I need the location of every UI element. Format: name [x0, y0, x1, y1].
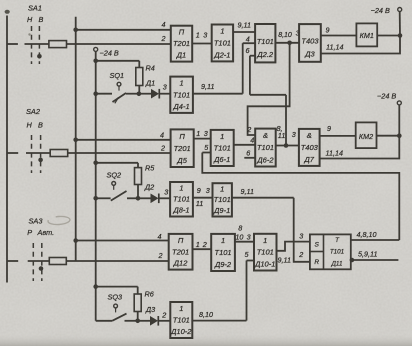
logic element D10-2 (Т101) [170, 302, 192, 338]
svg-text:Т101: Т101 [257, 248, 274, 257]
svg-text:−24 В: −24 В [371, 6, 390, 15]
svg-text:9: 9 [327, 124, 331, 133]
label diode Д1 [145, 79, 155, 88]
svg-text:Т101: Т101 [214, 143, 231, 152]
label 11,14 D3 [326, 43, 343, 52]
wire SQ2 right [127, 197, 138, 199]
label -24V left [100, 49, 119, 58]
wire D6-2 output to D7 [276, 145, 299, 147]
wire to R5 top [96, 163, 138, 168]
svg-text:&: & [263, 131, 268, 140]
logic element D6-2 (Т101) [255, 129, 276, 167]
wire D6-1 to D6-2 pin4 [234, 144, 256, 146]
svg-text:1: 1 [180, 79, 184, 88]
svg-text:R5: R5 [145, 164, 155, 173]
wire D4-1 output 9,11 [193, 93, 243, 95]
svg-text:Р: Р [27, 228, 32, 237]
svg-text:В: В [39, 15, 44, 24]
svg-text:R4: R4 [146, 64, 155, 73]
wire diode to D4-1 pin3 [159, 93, 170, 95]
label diode Д3 [145, 305, 155, 314]
pin label 3 D8-1 [164, 188, 168, 197]
wire SA1 to resistor [25, 43, 49, 45]
svg-text:Т201: Т201 [172, 247, 189, 256]
label diode Д2 [144, 182, 154, 191]
label 9,11 [238, 21, 251, 30]
svg-text:11: 11 [278, 131, 286, 140]
svg-text:Д12: Д12 [173, 259, 188, 268]
wire -24V rail vertical [95, 51, 97, 320]
logic element D6-1 (Т101) [211, 130, 234, 166]
logic element D12 (Т201) [169, 234, 193, 270]
label SA1 positions Н В [27, 15, 44, 24]
svg-text:1: 1 [196, 31, 200, 40]
wire to diode VD1 [139, 93, 151, 95]
svg-text:11: 11 [196, 199, 204, 208]
pin 6 stub D6-2 unused [244, 157, 255, 159]
resistor R4 [136, 68, 143, 86]
svg-text:Д1: Д1 [145, 79, 155, 88]
pin 6 stub D2-2 [250, 56, 255, 95]
pin label 2 D6-2 [246, 125, 251, 134]
pin label 6 D2-2 [246, 46, 250, 55]
wire R5 bottom [137, 185, 139, 199]
pin label 4 D6-2 [250, 136, 254, 145]
wire rail to D5 pin4 [76, 139, 171, 141]
wire diode to D8-1 pin3 [159, 197, 170, 199]
wire to diode VD2 [138, 197, 151, 199]
svg-text:Т201: Т201 [174, 144, 191, 153]
svg-text:2: 2 [202, 240, 207, 249]
pin label 4 D12 [158, 232, 162, 241]
svg-text:4,8,10: 4,8,10 [357, 230, 377, 239]
svg-text:9,11: 9,11 [241, 187, 254, 196]
label 5,9,11 [358, 250, 377, 259]
wire D7 output 9 to KM2 [320, 135, 356, 137]
label SQ1 [110, 71, 125, 80]
feedback wire D2-2 output to D6-2 pin2 [248, 43, 290, 135]
wire SQ3 right [125, 320, 138, 322]
logic element D3 (Т403) [299, 24, 321, 62]
svg-text:3: 3 [292, 130, 296, 139]
svg-text:1: 1 [221, 236, 225, 245]
labels 8 10 3 [235, 224, 250, 242]
resistor R6 [134, 294, 141, 312]
wire D2-1 to D2-2 (9,11) [233, 31, 255, 33]
svg-text:8,10: 8,10 [199, 310, 213, 319]
svg-text:9,11: 9,11 [278, 256, 291, 265]
diode VD3 (Д3) [150, 316, 158, 326]
svg-text:6: 6 [246, 148, 250, 157]
switch SQ3 blade [112, 314, 126, 321]
node rail-D5 [73, 138, 78, 143]
label SA1 [28, 4, 42, 13]
pencil loop mark [48, 216, 71, 226]
label 9,11 D4-1 output [201, 82, 214, 91]
svg-text:&: & [307, 131, 312, 140]
svg-text:2: 2 [161, 311, 166, 320]
wire diode to D10-2 pin2 [158, 320, 170, 322]
switch SA1 dashed contacts [32, 26, 42, 64]
svg-text:Д6-1: Д6-1 [213, 155, 230, 164]
svg-text:8,10: 8,10 [278, 32, 292, 39]
svg-text:Т403: Т403 [301, 143, 319, 152]
svg-text:SA3: SA3 [29, 217, 44, 226]
logic element D1 (Т201) [171, 26, 192, 62]
svg-text:2: 2 [298, 250, 303, 259]
wire rail to D12 pin4 [76, 240, 169, 242]
wire resistor to D5 pin2 [68, 152, 171, 154]
wire resistor to D1 pin2 [67, 43, 171, 45]
svg-text:Т101: Т101 [257, 143, 274, 152]
wire D12 to D9-2 [193, 248, 212, 250]
svg-text:1: 1 [263, 236, 267, 245]
label SA3 [29, 217, 44, 226]
logic element D4-1 (Т101) [170, 77, 193, 113]
switch SQ1 blade [113, 93, 127, 103]
svg-text:8: 8 [238, 224, 242, 233]
svg-text:Д3: Д3 [145, 305, 155, 314]
svg-text:3: 3 [164, 188, 168, 197]
svg-text:1: 1 [196, 240, 200, 249]
svg-text:1: 1 [220, 27, 224, 36]
pin label 5 D10-1 [245, 250, 250, 259]
vertical rail to pin4 inputs [75, 17, 77, 261]
label 9,11 D9-1 output [241, 187, 254, 196]
logic element D9-2 (Т101) [211, 234, 235, 271]
wire D5 to D6-1 [194, 138, 211, 140]
label SQ2 [107, 171, 122, 180]
svg-text:Д2.2: Д2.2 [256, 50, 274, 59]
svg-text:R: R [314, 259, 319, 266]
label R6 [145, 290, 155, 299]
wire R6 bottom [137, 312, 139, 321]
svg-text:Д10-1: Д10-1 [254, 260, 275, 269]
svg-text:П: П [179, 28, 185, 37]
node R5 branch [93, 161, 98, 166]
relay KM2 [356, 122, 377, 148]
svg-text:Н: Н [27, 15, 33, 24]
wire D10-1 output step to S input [277, 242, 310, 251]
logic element D10-1 (Т101) [254, 234, 277, 271]
label -24V right middle [377, 92, 396, 101]
pin label 2 trigger R [298, 250, 303, 259]
svg-text:4: 4 [250, 136, 254, 145]
left supply bus line [5, 10, 10, 283]
wire -24V terminal down to KM2 node [398, 105, 400, 136]
svg-text:1: 1 [179, 184, 183, 193]
wire D9-1 output 9,11 [232, 197, 294, 199]
wire SQ1 right [126, 93, 139, 95]
svg-text:1: 1 [196, 129, 200, 138]
svg-text:9,11: 9,11 [238, 21, 251, 30]
svg-text:Т101: Т101 [173, 195, 190, 204]
svg-text:4: 4 [246, 35, 250, 44]
pin labels 1 3 D6-1 [196, 129, 208, 138]
node trigger output [350, 258, 355, 263]
svg-text:−24 В: −24 В [377, 92, 396, 101]
wire R4 bottom [138, 86, 140, 94]
wire rail to D1 pin4 [76, 29, 171, 31]
wire trigger output 4,8,10 [351, 239, 400, 241]
wire SQ1 left [96, 93, 112, 95]
switch SA3 stub [7, 260, 18, 262]
svg-text:Д4-1: Д4-1 [173, 102, 190, 111]
wire KM1 to -24V node [377, 35, 400, 37]
pin label 6 D6-2 [246, 148, 250, 157]
node rail-D1 [73, 28, 78, 33]
svg-text:2: 2 [160, 144, 165, 153]
svg-text:П: П [178, 236, 184, 245]
label SA2 positions Н В [27, 121, 44, 130]
svg-text:1: 1 [220, 185, 224, 194]
pin label 2 D12 [158, 251, 163, 260]
terminal -24V right middle [397, 101, 401, 105]
svg-text:11,14: 11,14 [326, 149, 343, 158]
switch SA1 stub [7, 43, 18, 45]
svg-text:4: 4 [162, 20, 166, 29]
svg-text:Д10-2: Д10-2 [170, 327, 192, 336]
wire D3 11,14 return [321, 36, 400, 54]
switch SQ1 actuator [117, 82, 121, 90]
svg-text:3: 3 [247, 232, 251, 241]
label -24V top right [371, 6, 390, 15]
pin labels 1 3 [196, 31, 208, 40]
svg-text:Т201: Т201 [173, 39, 190, 48]
svg-text:Д3: Д3 [304, 49, 315, 58]
terminal -24V top right [398, 8, 402, 12]
logic element D5 (Т201) [171, 129, 194, 167]
wire D7 11,14 return [320, 136, 400, 159]
svg-text:Т101: Т101 [257, 37, 274, 46]
pin label 4 D5 [160, 131, 164, 140]
svg-text:9: 9 [197, 186, 201, 195]
svg-text:Авт.: Авт. [37, 228, 55, 237]
pin label 4 D2-2 [246, 35, 250, 44]
svg-text:SA1: SA1 [28, 4, 42, 13]
svg-text:Д8-1: Д8-1 [172, 206, 189, 215]
logic element D9-1 (Т101) [213, 183, 232, 216]
svg-text:3: 3 [204, 129, 208, 138]
relay KM1 [356, 23, 377, 46]
wire D9-2 to D10-1 [235, 241, 254, 243]
pin label 2 D10-2 [161, 311, 166, 320]
resistor SA1 series [49, 41, 67, 48]
node R5-diode junction [136, 196, 141, 201]
logic element D2-2 (Т101) [255, 24, 275, 62]
svg-text:9: 9 [326, 26, 330, 35]
node -24V KM1 [398, 33, 403, 38]
svg-text:11,14: 11,14 [326, 43, 343, 52]
pin 4 stub D2-2 [243, 42, 255, 44]
svg-text:Д2: Д2 [144, 182, 154, 191]
switch SQ2 blade [111, 191, 127, 201]
wire pin6 net to D6-2 output node [250, 95, 286, 146]
svg-text:В: В [38, 121, 43, 130]
node -24V KM2 [397, 133, 402, 138]
svg-text:КМ1: КМ1 [360, 31, 374, 40]
svg-text:Д5: Д5 [176, 156, 187, 165]
svg-text:SA2: SA2 [26, 107, 40, 116]
svg-text:SQ2: SQ2 [107, 171, 122, 180]
svg-text:Д7: Д7 [304, 155, 315, 164]
label R4 [146, 64, 155, 73]
svg-text:SQ1: SQ1 [110, 71, 125, 80]
pin label 2 D5 [160, 144, 165, 153]
svg-text:Д1: Д1 [176, 51, 186, 60]
switch SQ2 actuator [112, 182, 116, 190]
diode VD1 (Д1) [151, 89, 159, 99]
svg-text:Т101: Т101 [214, 248, 231, 257]
svg-text:S: S [314, 241, 319, 248]
node D2-2 output [287, 41, 292, 46]
pin label 9 D3 [326, 26, 330, 35]
terminal -24V left [94, 47, 98, 51]
switch SA2 dashed contacts [32, 135, 43, 173]
svg-text:2: 2 [246, 125, 251, 134]
wire SA3 to resistor [28, 260, 50, 262]
label 8,10 D10-2 output [199, 310, 213, 319]
labels 8, 11 D6-2 output [277, 124, 286, 140]
svg-text:КМ2: КМ2 [359, 132, 373, 141]
svg-text:3: 3 [206, 186, 210, 195]
diode VD2 (Д2) [151, 194, 159, 204]
wire SA2 to resistor [26, 152, 50, 154]
switch SA2 stub [7, 152, 18, 154]
labels 9 3 11 D8-1 output [196, 186, 210, 208]
svg-text:SQ3: SQ3 [108, 293, 123, 302]
svg-text:6: 6 [246, 46, 250, 55]
svg-text:3: 3 [299, 231, 303, 240]
svg-text:3: 3 [163, 83, 167, 92]
svg-text:Т101: Т101 [330, 248, 344, 255]
svg-text:Т403: Т403 [301, 37, 319, 46]
svg-text:П: П [179, 132, 185, 141]
svg-text:Т101: Т101 [214, 39, 231, 48]
logic element D2-1 (Т101) [212, 25, 233, 62]
pin label 3 D4-1 [163, 83, 167, 92]
wire D9-1 down to trigger R input [294, 198, 310, 262]
wire up to D2-2 pin4 [242, 43, 244, 93]
wire D1 to D2-1 [192, 43, 212, 45]
wire D10-2 output 8,10 [192, 320, 246, 322]
pin label 3 trigger S [299, 231, 303, 240]
wire KM2 to -24V node [377, 135, 400, 137]
svg-text:9,11: 9,11 [201, 82, 214, 91]
svg-text:Д11: Д11 [331, 261, 343, 268]
label SQ3 [108, 293, 123, 302]
logic element D8-1 (Т101) [170, 182, 193, 217]
trigger D11 (Т101) with S R cells [310, 234, 351, 269]
wire D8-1 to D9-1 [193, 197, 213, 199]
svg-text:Т101: Т101 [173, 90, 190, 99]
pin label 4 D1 [162, 20, 166, 29]
switch SA3 dashed contacts [33, 243, 43, 281]
pin labels 1 2 [196, 240, 207, 249]
resistor R5 [135, 168, 142, 185]
svg-text:Д2-1: Д2-1 [213, 50, 230, 59]
svg-text:1: 1 [220, 132, 224, 141]
svg-text:Т101: Т101 [173, 316, 190, 325]
node R6 branch [93, 284, 98, 289]
wire resistor to D12 pin2 [66, 260, 168, 262]
wire D3 output 9 to KM1 [321, 35, 357, 37]
svg-text:4: 4 [160, 131, 164, 140]
svg-text:10: 10 [235, 232, 243, 241]
wire SQ2 left [96, 197, 111, 199]
label 4,8,10 [357, 230, 377, 239]
label SA2 [26, 107, 40, 116]
svg-text:1: 1 [179, 304, 183, 313]
label 8,10 and 3 [278, 29, 299, 39]
svg-text:Д6-2: Д6-2 [256, 155, 274, 164]
node R4 branch [93, 59, 98, 64]
wire to R6 top [96, 287, 138, 294]
pin 5 stub D10-1 [247, 260, 255, 262]
node D6-2 output [284, 143, 289, 148]
label R5 [145, 164, 155, 173]
pin label 5 D6-1 [204, 143, 209, 152]
svg-text:4: 4 [158, 232, 162, 241]
svg-text:3: 3 [203, 31, 207, 40]
svg-text:Д9-2: Д9-2 [214, 260, 232, 269]
pin label 2 D1 [161, 34, 166, 43]
label 11,14 D7 [326, 149, 343, 158]
wire D2-2 output to D3 [275, 42, 299, 44]
pin 5 stub D6-1 [202, 152, 210, 154]
wire SQ3 left [96, 320, 113, 322]
node R4-diode junction [137, 92, 142, 97]
node rail-D12 [73, 238, 78, 243]
wire D10-1 pin5 down to D10-2 output [246, 261, 248, 321]
wire D6-1 pin5 feedback path [202, 153, 399, 241]
pin label 3 D7 [292, 130, 296, 139]
svg-text:2: 2 [161, 34, 166, 43]
wire -24V terminal down [399, 12, 401, 36]
svg-text:2: 2 [158, 251, 163, 260]
svg-text:5,9,11: 5,9,11 [358, 250, 377, 259]
node SQ2 row [93, 196, 98, 201]
logic element D7 (Т403) [299, 129, 320, 166]
pin label 9 D7 [327, 124, 331, 133]
node R6-diode junction [135, 319, 140, 324]
svg-text:Н: Н [27, 121, 33, 130]
resistor SA2 series [50, 150, 67, 157]
svg-text:Т101: Т101 [214, 195, 231, 204]
node SQ1 row [93, 91, 98, 96]
wire to R4 top [96, 61, 140, 68]
label 9,11 D10-1 output [278, 256, 291, 265]
wire trigger output 5,9,11 [351, 259, 399, 261]
svg-text:Д9-1: Д9-1 [213, 206, 230, 215]
resistor SA3 series [49, 258, 66, 265]
label SA3 mode Р Авт [27, 228, 54, 237]
wire to diode VD3 [138, 320, 150, 322]
svg-text:−24 В: −24 В [100, 49, 119, 58]
switch SQ3 actuator [114, 304, 118, 312]
svg-text:R6: R6 [145, 290, 155, 299]
